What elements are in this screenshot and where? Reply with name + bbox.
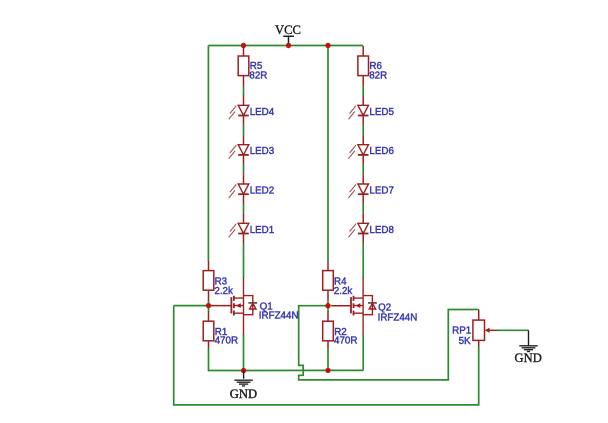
- LED LED4: [243, 95, 245, 125]
- wire R2 bottom to ground bus: [327, 348, 329, 370]
- svg-text:470R: 470R: [215, 335, 238, 346]
- ground stub (RP1 wiper GND): [528, 330, 530, 345]
- junction dot VCC terminal: [286, 43, 291, 48]
- wire R3 bottom / R1 top node: [208, 301, 210, 312]
- LED LED6: [362, 135, 364, 165]
- svg-text:GND: GND: [230, 387, 257, 401]
- power terminal VCC: [283, 36, 294, 45]
- resistor R6: [358, 56, 369, 76]
- wire LED2 to LED1: [243, 204, 245, 214]
- ground symbol (main GND): [234, 379, 252, 381]
- resistor R4: [323, 271, 334, 291]
- junction dot Q1 gate node: [206, 303, 211, 308]
- svg-text:2.2k: 2.2k: [334, 286, 353, 297]
- resistor R5: [238, 56, 249, 76]
- potentiometer RP1 body: [473, 320, 485, 340]
- LED LED2: [243, 174, 245, 204]
- MOSFET Q1 gate pin: [212, 305, 231, 307]
- svg-text:LED3: LED3: [250, 146, 275, 157]
- svg-text:VCC: VCC: [275, 23, 301, 37]
- MOSFET Q2 gate pin: [331, 305, 350, 307]
- wire LED8 to Q2 drain: [362, 243, 364, 278]
- wire LED7 to LED8: [362, 204, 364, 214]
- wire LED6 to LED7: [362, 165, 364, 175]
- wire Q1 gate to RP1 bottom: [174, 306, 479, 405]
- resistor R5 pins: [243, 46, 245, 86]
- svg-text:IRFZ44N: IRFZ44N: [378, 312, 418, 323]
- svg-text:82R: 82R: [369, 71, 387, 82]
- wire LED4 to LED3: [243, 125, 245, 135]
- LED LED7: [362, 174, 364, 204]
- MOSFET Q1: [230, 297, 232, 313]
- svg-text:470R: 470R: [334, 335, 357, 346]
- potentiometer RP1 wiper arrow: [486, 329, 497, 331]
- wire ground bus A: [244, 369, 364, 371]
- svg-text:5K: 5K: [459, 336, 471, 347]
- wire LED5 to LED6: [362, 125, 364, 135]
- wire Q1 gate node: [174, 305, 213, 307]
- wire R6 to LED5: [362, 86, 364, 96]
- svg-text:82R: 82R: [249, 71, 267, 82]
- svg-text:LED4: LED4: [250, 107, 275, 118]
- resistor R2 pins: [327, 311, 329, 348]
- junction dot middle rail: [325, 43, 330, 48]
- MOSFET Q2: [350, 297, 352, 313]
- wire R5 to LED4: [243, 86, 245, 96]
- LED LED1: [243, 213, 245, 243]
- wire Q1 source to ground node: [243, 334, 245, 371]
- wire RP1 wiper to GND: [497, 329, 529, 331]
- resistor R4 pins: [327, 261, 329, 301]
- svg-text:LED6: LED6: [369, 146, 394, 157]
- LED LED8: [362, 213, 364, 243]
- wire RP1 top corner: [472, 309, 479, 311]
- resistor R6 pins: [362, 46, 364, 86]
- potentiometer RP1 pins: [478, 310, 480, 347]
- wire R1 bottom to ground node: [209, 348, 244, 371]
- svg-text:LED8: LED8: [369, 225, 394, 236]
- wire middle rail down to R4: [327, 46, 329, 262]
- svg-text:LED2: LED2: [250, 186, 275, 197]
- junction dot R5/VCC bus: [241, 43, 246, 48]
- wire Q2 source up: [362, 334, 364, 370]
- LED LED5: [362, 95, 364, 125]
- wire R4 bottom / R2 top node: [327, 301, 329, 312]
- wire Q2 gate to RP1 top (with hop jog): [299, 306, 472, 380]
- svg-text:IRFZ44N: IRFZ44N: [259, 310, 299, 321]
- svg-text:2.2k: 2.2k: [214, 286, 233, 297]
- junction dot R2 bottom: [325, 368, 330, 373]
- svg-text:LED1: LED1: [250, 225, 275, 236]
- resistor R2: [323, 321, 334, 341]
- svg-text:LED5: LED5: [369, 107, 394, 118]
- resistor R3 pins: [208, 261, 210, 301]
- junction dot ground node: [241, 368, 246, 373]
- resistor R1 pins: [208, 311, 210, 348]
- wire VCC top bus: [208, 45, 363, 47]
- resistor R3: [203, 271, 214, 291]
- ground stub (main GND): [243, 371, 245, 379]
- wire LED1 to Q1 drain: [243, 243, 245, 278]
- wire left rail down to R3: [207, 46, 209, 262]
- resistor R1: [203, 321, 214, 341]
- ground symbol (RP1 wiper GND): [519, 345, 537, 347]
- LED LED3: [243, 135, 245, 165]
- junction dot Q2 gate node: [325, 303, 330, 308]
- svg-text:LED7: LED7: [369, 186, 394, 197]
- wire LED3 to LED2: [243, 165, 245, 175]
- svg-text:GND: GND: [515, 351, 542, 365]
